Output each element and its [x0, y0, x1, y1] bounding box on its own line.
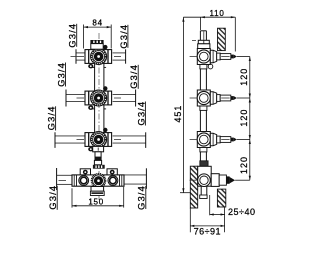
svg-text:84: 84: [92, 18, 103, 27]
svg-text:110: 110: [210, 9, 225, 18]
svg-text:25÷40: 25÷40: [228, 207, 255, 217]
svg-text:120: 120: [239, 109, 249, 127]
svg-text:76÷91: 76÷91: [194, 227, 221, 237]
svg-text:120: 120: [239, 156, 249, 174]
svg-text:451: 451: [173, 105, 183, 123]
svg-text:150: 150: [88, 198, 104, 207]
svg-text:120: 120: [239, 68, 249, 86]
